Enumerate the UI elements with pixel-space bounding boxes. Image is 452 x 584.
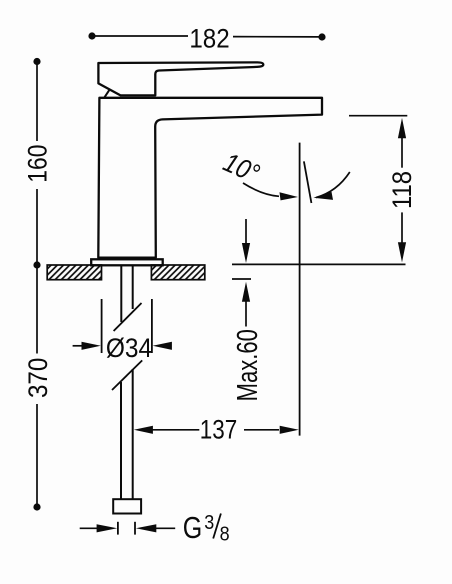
dimension 370 line lower segment (36, 404, 38, 504)
svg-text:Ø34: Ø34 (106, 333, 152, 363)
angle leader right arrowhead (313, 192, 333, 200)
pipe break slash lower (112, 360, 142, 390)
Ø34 right arrow (153, 342, 172, 350)
angle leader left curve (243, 183, 279, 196)
svg-text:3: 3 (204, 512, 214, 534)
dimension 370 bottom dot (33, 503, 40, 510)
angle leader right curve (316, 172, 350, 198)
supply pipe lower left line (120, 382, 122, 499)
Ø34 left arrow (73, 345, 83, 347)
dimension 182 line right segment (233, 36, 320, 38)
countertop left hatched section (47, 265, 101, 280)
supply shank upper left line (120, 266, 122, 322)
supply pipe lower right line (132, 369, 134, 499)
Max.60 lower arrow (up) (242, 282, 250, 302)
dimension 118 top extension line (349, 115, 407, 117)
Max.60 upper arrow (down) (245, 219, 247, 245)
dimension 118 lower arrow (401, 212, 403, 243)
dimension 160 top dot (33, 58, 40, 65)
G3/8 fitting body (113, 499, 141, 513)
dimension 137 right arrow (244, 429, 279, 431)
pipe break slash upper (114, 303, 142, 331)
dimension 182 line left segment (93, 35, 188, 37)
G3/8 left arrow (80, 527, 97, 529)
dimension 160/370 shared dot (33, 261, 40, 268)
water stream vertical line (299, 143, 301, 436)
G3/8 right extension tick (134, 522, 136, 535)
dimension 370 line upper segment (36, 268, 38, 354)
faucet handle lever and base (98, 62, 263, 95)
fraction slash (213, 514, 221, 539)
Ø34 left extension line (101, 299, 103, 353)
handle lower-left wedge line (104, 90, 109, 97)
G3/8 left extension tick (117, 522, 119, 535)
svg-text:8: 8 (220, 523, 230, 545)
dimension 118 upper arrow (398, 118, 406, 138)
countertop underside tick (232, 278, 251, 280)
svg-text:160: 160 (22, 145, 52, 183)
dimension 160 line lower segment (36, 189, 38, 262)
dimension 182 right dot (318, 33, 325, 40)
countertop right hatched section (151, 265, 204, 280)
tilted stream line (10 deg) (304, 161, 312, 203)
supply shank upper right line (132, 266, 134, 309)
dimension 137 left arrow (134, 426, 153, 434)
angle leader left arrowhead (280, 192, 299, 200)
svg-text:Max.60: Max.60 (232, 329, 264, 401)
base flange (91, 259, 163, 265)
svg-text:182: 182 (189, 24, 229, 54)
dimension 182 left dot (88, 32, 95, 39)
dimension 160 line upper segment (36, 64, 38, 141)
svg-text:G: G (183, 510, 203, 545)
G3/8 right arrow (136, 524, 157, 532)
countertop surface line extended right (232, 263, 406, 265)
svg-text:370: 370 (23, 358, 53, 399)
Ø34 right extension line (151, 299, 153, 353)
svg-text:118: 118 (387, 171, 417, 209)
svg-text:137: 137 (200, 415, 238, 445)
faucet spout and body outline (98, 98, 322, 258)
